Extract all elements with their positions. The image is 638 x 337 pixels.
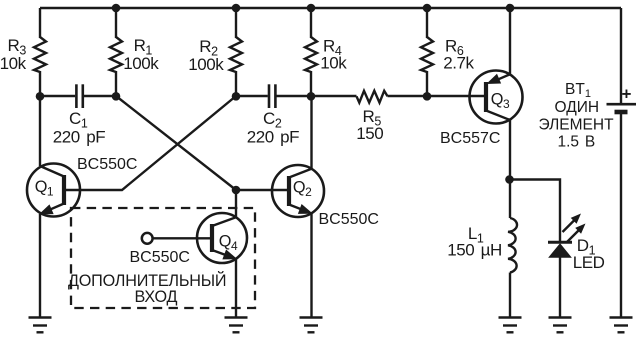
ground L1	[499, 318, 522, 333]
junction R4 top rail	[307, 4, 316, 13]
resistor R5	[357, 91, 388, 103]
svg-text:BT1: BT1	[565, 81, 591, 100]
resistor R4	[305, 37, 317, 72]
wire D1 to ground	[559, 257, 561, 317]
wire battery to ground	[620, 114, 622, 318]
transistor Q4	[197, 213, 247, 263]
junction Q3 emitter top rail	[506, 4, 515, 13]
wire R4 to node D	[310, 71, 312, 96]
wire R5 to node E	[388, 95, 428, 97]
wire input terminal to Q4 base	[153, 237, 210, 239]
svg-text:ЭЛЕМЕНТ: ЭЛЕМЕНТ	[539, 117, 615, 134]
wire node A down to Q1 collector	[39, 96, 41, 166]
wire node G to D1 branch	[510, 180, 560, 242]
wire R3 to node A	[39, 71, 41, 96]
svg-text:LED: LED	[573, 253, 605, 272]
node E junction R5/R6/Q3 base	[423, 92, 432, 101]
battery BT1	[607, 104, 637, 112]
wire Q2 base from node F	[236, 189, 287, 191]
svg-text:+: +	[622, 85, 632, 104]
wire C1 to node B	[82, 95, 116, 97]
ground D1	[549, 318, 572, 333]
transistor Q2	[272, 165, 324, 217]
junction R2 top rail	[232, 4, 241, 13]
node G junction Q3 collector/L1/D1	[505, 175, 514, 184]
svg-text:BC557C: BC557C	[440, 130, 500, 147]
node D junction C2/R4/R5/Q2 collector	[307, 92, 316, 101]
inductor L1	[509, 180, 511, 219]
wire R6 to node E	[426, 71, 428, 96]
transistor Q3	[470, 71, 523, 124]
wire Q2 collector to node D	[310, 96, 312, 169]
svg-text:220 pF: 220 pF	[53, 127, 105, 146]
resistor R2	[230, 37, 242, 72]
dashed box additional input	[71, 208, 255, 308]
wire R1 to node B	[115, 71, 117, 96]
wire node E to Q3 base	[427, 95, 484, 97]
capacitor C1	[76, 84, 82, 108]
input terminal	[142, 233, 153, 244]
svg-text:Q3: Q3	[491, 91, 510, 112]
wire L1 to ground	[509, 273, 511, 318]
node C junction R2/C2/cross wire	[232, 92, 241, 101]
svg-text:1.5 В: 1.5 В	[558, 134, 596, 151]
node F junction Q2 base/Q4 collector	[232, 186, 241, 195]
wire cross-coupling node B to Q2 base node	[116, 96, 236, 190]
wire top rail	[40, 7, 621, 9]
svg-text:Q2: Q2	[293, 179, 312, 200]
resistor R1	[110, 37, 122, 72]
wire node D to R5	[311, 95, 357, 97]
ground Q1	[29, 318, 52, 333]
wire R3 top drop	[39, 8, 41, 38]
ground Q2	[300, 318, 323, 333]
wire R2 top drop	[235, 8, 237, 38]
svg-text:10k: 10k	[0, 54, 27, 73]
wire Q1 emitter to ground	[39, 214, 41, 317]
junction R1 top rail	[112, 4, 121, 13]
wire Q3 collector to node G	[509, 120, 511, 180]
wire Q4 emitter to ground	[235, 259, 237, 318]
svg-text:220 pF: 220 pF	[247, 127, 299, 146]
transistor Q1	[27, 164, 80, 217]
ground battery	[610, 318, 633, 333]
svg-text:100k: 100k	[188, 55, 224, 74]
svg-text:ВХОД: ВХОД	[135, 288, 178, 306]
svg-text:10k: 10k	[320, 54, 347, 73]
svg-text:150 µH: 150 µH	[447, 241, 502, 260]
svg-text:BC550C: BC550C	[77, 156, 137, 173]
capacitor C2	[269, 84, 275, 108]
resistor R6	[421, 37, 433, 72]
wire Q2 emitter to ground	[310, 213, 312, 317]
wire C2 to node D	[275, 95, 311, 97]
svg-text:BC550C: BC550C	[130, 249, 190, 266]
svg-text:Q4: Q4	[219, 232, 238, 253]
svg-text:2.7k: 2.7k	[443, 54, 474, 73]
svg-text:ОДИН: ОДИН	[555, 99, 600, 116]
wire R4 top drop	[310, 8, 312, 38]
ground Q4	[225, 318, 248, 333]
LED D1	[548, 215, 585, 258]
wire Q3 emitter to top rail	[509, 8, 511, 74]
wire cross-coupling node C to Q1 base	[66, 96, 236, 190]
node B junction R1/C1/cross wire	[112, 92, 121, 101]
svg-text:100k: 100k	[123, 54, 159, 73]
wire Q4 collector to node F	[235, 190, 237, 218]
svg-text:BC550C: BC550C	[319, 211, 379, 228]
node A junction R3/C1/Q1 collector	[36, 92, 45, 101]
wire node A to C1	[40, 95, 75, 97]
wire node C to C2	[236, 95, 268, 97]
resistor R3	[34, 37, 46, 72]
junction R6 top rail	[423, 4, 432, 13]
wire R1 top drop	[115, 8, 117, 38]
svg-text:150: 150	[356, 124, 383, 143]
wire R6 top drop	[426, 8, 428, 38]
wire R2 to node C	[235, 71, 237, 96]
svg-text:Q1: Q1	[35, 178, 54, 199]
wire battery top	[620, 8, 622, 103]
